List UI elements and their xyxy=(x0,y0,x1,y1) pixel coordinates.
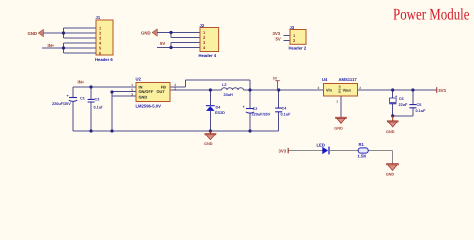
svg-text:D: D xyxy=(339,91,341,94)
svg-text:1: 1 xyxy=(336,100,338,104)
svg-text:Header 4: Header 4 xyxy=(199,53,217,58)
svg-text:5V: 5V xyxy=(273,76,278,80)
svg-text:220uF/35V: 220uF/35V xyxy=(252,113,271,117)
svg-text:R1: R1 xyxy=(359,142,365,147)
svg-text:0.1uf: 0.1uf xyxy=(94,106,104,110)
svg-text:0.1uF: 0.1uF xyxy=(416,109,427,113)
svg-text:ON/OFF: ON/OFF xyxy=(139,89,154,94)
svg-text:AMS1117: AMS1117 xyxy=(339,77,358,82)
svg-text:3: 3 xyxy=(131,92,133,96)
svg-text:Power Module: Power Module xyxy=(393,5,470,24)
svg-text:22uF: 22uF xyxy=(399,103,409,107)
svg-text:U4: U4 xyxy=(322,77,328,82)
svg-text:LED: LED xyxy=(317,142,325,147)
svg-text:U2: U2 xyxy=(136,76,142,81)
svg-text:33uH: 33uH xyxy=(224,93,234,97)
svg-text:C6: C6 xyxy=(399,97,404,101)
svg-text:3: 3 xyxy=(318,86,320,90)
svg-text:Header 2: Header 2 xyxy=(289,46,307,51)
svg-text:5: 5 xyxy=(131,88,133,92)
svg-text:1: 1 xyxy=(131,83,133,87)
svg-text:GND: GND xyxy=(204,142,213,146)
svg-text:GND: GND xyxy=(28,31,38,36)
svg-text:IN+: IN+ xyxy=(78,79,85,84)
svg-text:LM2596-5.0V: LM2596-5.0V xyxy=(136,103,162,108)
svg-text:GND: GND xyxy=(334,126,343,130)
svg-text:GND: GND xyxy=(386,130,395,134)
svg-text:3V3: 3V3 xyxy=(438,88,446,93)
svg-text:GND: GND xyxy=(386,173,395,177)
svg-text:5V: 5V xyxy=(276,37,281,42)
svg-text:C3: C3 xyxy=(95,98,100,102)
svg-text:0.1uF: 0.1uF xyxy=(281,113,292,117)
svg-text:C5: C5 xyxy=(417,103,422,107)
svg-text:Vin: Vin xyxy=(326,88,333,93)
svg-text:IN+: IN+ xyxy=(48,43,55,48)
svg-text:C1: C1 xyxy=(80,97,85,101)
svg-text:J3: J3 xyxy=(290,25,295,30)
svg-text:C2: C2 xyxy=(253,107,258,111)
svg-text:J2: J2 xyxy=(200,23,205,28)
svg-text:220uF/35V: 220uF/35V xyxy=(52,102,71,106)
svg-text:ES2D: ES2D xyxy=(215,111,225,115)
svg-text:OUT: OUT xyxy=(157,89,166,94)
svg-text:1.5K: 1.5K xyxy=(358,153,367,158)
svg-text:L2: L2 xyxy=(222,83,226,87)
svg-text:2: 2 xyxy=(174,87,176,91)
svg-text:5V: 5V xyxy=(160,41,165,46)
svg-text:2: 2 xyxy=(359,86,361,90)
svg-text:3V3: 3V3 xyxy=(279,149,287,154)
svg-text:3V3: 3V3 xyxy=(273,31,281,36)
svg-text:Vout: Vout xyxy=(343,88,352,93)
svg-text:Header 6: Header 6 xyxy=(95,57,113,62)
svg-text:J1: J1 xyxy=(96,15,101,20)
svg-text:GND: GND xyxy=(141,30,151,35)
svg-text:GND: GND xyxy=(139,95,148,100)
